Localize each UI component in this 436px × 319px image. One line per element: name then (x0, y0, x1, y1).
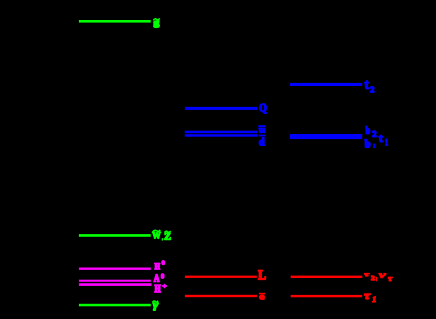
level line gluino (79, 20, 151, 23)
label photino gamma-tilde (152, 301, 158, 311)
label stau1 (364, 294, 375, 302)
level line squark doublet Q (185, 107, 257, 110)
level line slepton e-bar (185, 295, 257, 297)
level line photino (79, 304, 151, 307)
level line charged higgs H+ (79, 283, 152, 286)
label stop t1 (379, 135, 388, 145)
level line slepton doublet L (185, 276, 257, 278)
label heavy higgs H0 (155, 261, 165, 270)
level bar sbottoms and stop b2 t1 b1 (290, 134, 362, 139)
level line squark d-bar (185, 134, 258, 137)
label wino zino W,Z (152, 230, 170, 240)
label pseudoscalar A0 (154, 274, 164, 282)
label squark doublet Q (260, 104, 267, 114)
level line pseudoscalar A0 (79, 280, 151, 282)
label charged higgs H+ (155, 284, 167, 292)
label stau2 snutau (364, 274, 392, 281)
label stop t2 (365, 81, 374, 92)
label squark d-bar (259, 135, 266, 146)
level line heavy higgs H0 (79, 268, 151, 270)
level line stau1 (291, 295, 362, 297)
label gluino g-tilde (153, 18, 159, 27)
level line wino zino W Z (79, 234, 151, 237)
label squark u-bar (258, 125, 266, 132)
label sbottom b2 (366, 126, 377, 136)
level line stau2 snutau (291, 276, 363, 278)
label slepton e-bar (259, 293, 265, 299)
level line squark u-bar (185, 131, 258, 134)
label slepton doublet L (258, 270, 265, 279)
label sbottom b1 (365, 139, 375, 147)
level line stop t2 (290, 83, 362, 86)
